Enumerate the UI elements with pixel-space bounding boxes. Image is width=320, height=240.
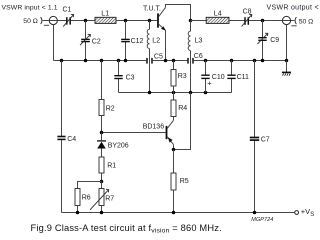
svg-text:L3: L3 [195,38,203,45]
svg-text:L1: L1 [101,11,109,18]
svg-text:C12: C12 [131,38,144,45]
svg-text:R7: R7 [105,196,114,203]
svg-text:C1: C1 [63,7,72,14]
node junction C7 top [253,59,257,63]
node junction L2 top / base node [148,19,152,23]
output connector bracket [295,17,296,24]
svg-text:C3: C3 [126,75,135,82]
wire: bias rail [119,92,232,94]
node junction BD136 emitter R5 [172,148,176,152]
svg-text:R6: R6 [82,195,91,202]
capacitor C2 leads [85,21,87,61]
node junction ground corner [285,59,289,63]
wire: emitter down to ground rail [165,30,167,60]
capacitor C2 trimmer arrow [80,34,90,45]
resistor R6 [75,189,80,213]
wire: output circle down to ground rail [286,25,288,61]
source generator circle [49,16,57,24]
resistor R1 [99,157,104,182]
svg-text:R4: R4 [178,105,187,112]
wire: collector to L4 [191,20,207,22]
capacitor C9 trimmer arrow [257,33,267,44]
wire: L1 to TUT base [116,20,157,22]
input source ground dash [44,24,49,26]
node junction C2 bottom [84,59,88,63]
inductor L1 (strip line) [95,17,116,23]
transistor T.U.T. emitter diagonal [159,24,166,30]
wire: bottom supply rail [62,212,295,214]
node junction C10 top [204,59,208,63]
inductor L3 lead lower through C6 gap to bias rail [190,51,192,93]
node junction R6 bottom [76,211,80,215]
node junction C3 top [117,59,121,63]
capacitor C10 leads [205,61,207,93]
capacitor C9 plates [258,38,266,41]
node junction L3 feed [189,91,193,95]
svg-text:Fig.9 Class-A test circuit at: Fig.9 Class-A test circuit at fvision = … [31,223,222,235]
transistor BD136 emitter arrow [168,137,173,142]
node junction R2 top [100,59,104,63]
node junction R3 R4 [172,91,176,95]
node junction C12 top [124,19,128,23]
wire: ground rail left segment [54,60,147,62]
capacitor C3 leads [118,61,120,93]
transistor BD136 base bar [166,126,168,139]
capacitor C11 leads [231,61,233,93]
wire: R1 bottom to R6 [78,182,102,189]
output ground dash [291,25,296,27]
wire: input lead through source [43,20,67,22]
wire: L4 to C8 [229,20,244,22]
diode BY206 [97,133,106,158]
capacitor C2 plates [81,39,90,41]
wire: C1 to L1 [71,20,95,22]
resistor R2 [99,61,104,133]
wire: ground rail right segment [194,60,287,62]
node junction R5 bottom [172,211,176,215]
capacitor C12 plates [121,39,130,41]
node junction C12 bottom [124,59,128,63]
wire: source down branch [53,25,55,61]
svg-text:50 Ω: 50 Ω [23,18,38,25]
svg-text:MGP724: MGP724 [251,217,273,223]
node junction L2 bias [148,91,152,95]
resistor R3 [171,61,176,93]
svg-text:C7: C7 [261,136,270,143]
capacitor C7 plates [250,138,259,141]
wire: collector top loop [166,5,191,21]
node junction C7 bottom [253,211,257,215]
inductor L2 lead upper [149,21,151,30]
svg-text:L4: L4 [214,11,222,18]
inductor L2 coil [147,29,149,48]
svg-text:VSWR input < 1.1: VSWR input < 1.1 [2,5,58,12]
svg-text:BY206: BY206 [108,143,129,150]
svg-text:C9: C9 [270,37,279,44]
transistor T.U.T. collector diagonal [159,7,166,16]
transistor T.U.T. base bar [157,13,159,27]
capacitor C4 leads [61,61,63,213]
node junction C4 top [60,59,64,63]
node junction C10 bottom [204,91,208,95]
svg-text:BD136: BD136 [143,123,165,130]
wire: C8 to output [249,20,294,22]
svg-text:50 Ω: 50 Ω [299,19,314,26]
resistor R7 (variable) [99,182,104,213]
input connector bracket [41,17,42,24]
node junction R7 bottom [100,211,104,215]
capacitor C8 trimmer arrow [242,14,252,26]
inductor L2 lead lower through C5 gap to bias rail [149,49,151,93]
capacitor C8 plates [245,17,248,25]
resistor R4 [171,93,176,121]
inductor L3 coil [188,31,190,50]
node junction C9 top [261,19,265,23]
node: VSWR input label [0,0,1,1]
svg-text:C11: C11 [237,74,249,81]
svg-text:R2: R2 [106,105,115,112]
svg-text:C5: C5 [154,54,163,61]
resistor R5 [171,150,176,213]
node junction R1 bottom [100,180,104,184]
svg-text:C2: C2 [92,38,101,45]
capacitor C3 plates [114,76,122,79]
node junction C2 top [84,19,88,23]
svg-text:+: + [207,78,212,87]
terminal +VS circle [295,211,299,215]
svg-text:T.U.T.: T.U.T. [143,6,161,13]
transistor T.U.T. emitter arrow [161,26,166,30]
svg-text:L2: L2 [152,38,160,45]
capacitor C5 plates [147,58,152,64]
node junction collector [189,19,193,23]
capacitor C1 plates [67,17,70,24]
node junction R3 top [172,59,176,63]
capacitor C7 leads [254,61,256,213]
node junction C11 top [230,59,234,63]
transistor BD136 collector diagonal [167,120,173,128]
capacitor C4 plates [57,137,65,140]
svg-text:C6: C6 [194,53,203,60]
ground symbol [282,61,291,76]
transistor BD136 emitter diagonal [167,137,173,150]
capacitor C1 trimmer arrow [63,14,73,26]
svg-text:R3: R3 [178,73,187,80]
svg-text:C4: C4 [67,136,76,143]
svg-text:VSWR output <: VSWR output < [267,5,319,12]
resistor R7 arrow [90,189,109,210]
output load circle [282,16,290,24]
inductor L4 (strip line) [206,17,229,23]
capacitor C9 leads [262,21,264,61]
node junction TUT emitter [164,59,168,63]
capacitor C11 plates [227,75,235,78]
svg-text:R1: R1 [107,162,116,169]
wire: ground rail middle segment [153,60,187,62]
wire: feed line down to BD136 emitter [174,93,191,150]
svg-text:C8: C8 [243,8,252,15]
capacitor C12 leads [125,21,127,61]
svg-text:R5: R5 [180,178,189,185]
capacitor C10 plates [201,75,209,78]
wire: BD136 base wire [102,132,166,134]
node junction BY206 anode R2 [100,131,104,135]
svg-text:C10: C10 [212,74,225,81]
node junction C9 bottom [261,59,265,63]
inductor L3 lead upper [190,21,192,32]
capacitor C6 plates [188,58,193,64]
